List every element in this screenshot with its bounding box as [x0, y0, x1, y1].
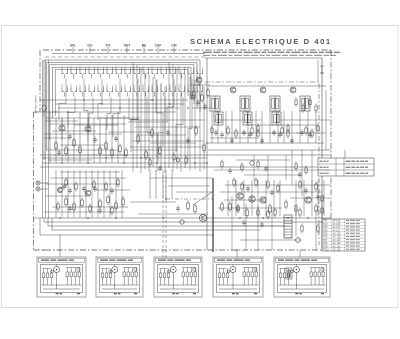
wire to box5 [299, 250, 301, 257]
tuner bus [42, 162, 207, 164]
junction dots 2 [212, 217, 214, 219]
inner dash-dot shield [205, 82, 319, 245]
chassis border left jog [34, 111, 41, 113]
inner dash-dot bottom [166, 198, 213, 200]
section separator vertical [206, 58, 208, 250]
transistor TR8 [85, 190, 91, 196]
small circle [180, 220, 184, 224]
transistor TR7 [58, 188, 63, 193]
IF transformer T1b [214, 112, 223, 125]
svg-text:GO: GO [87, 43, 93, 47]
accessory box 3 [154, 257, 202, 297]
chassis border left upper [39, 50, 41, 112]
transistor TR4 [230, 87, 236, 93]
IF bus1 [208, 142, 324, 144]
tuner capacitors [68, 135, 72, 137]
bus risers [40, 218, 52, 235]
output wires [227, 180, 229, 216]
AF parts left [65, 199, 68, 205]
tuner verticals [49, 112, 51, 163]
misc small parts [221, 162, 223, 167]
svg-text:SCHEMA ELECTRIQUE D 401: SCHEMA ELECTRIQUE D 401 [190, 37, 332, 46]
bus A [34, 217, 332, 219]
dial lamp [42, 105, 46, 111]
table wire [344, 150, 346, 158]
matrix lower horizontals [52, 99, 188, 101]
AGC circle [250, 161, 254, 165]
svg-text:AC 132: AC 132 [333, 249, 342, 252]
channel horizontals [130, 119, 205, 121]
chassis border left lower [33, 112, 35, 250]
transistor TR6 [290, 87, 296, 93]
svg-text:PO: PO [106, 43, 111, 47]
IF transformer T4 [300, 96, 310, 111]
parts list text line [203, 52, 212, 54]
IF bus2 [208, 149, 331, 151]
wire to box4 [236, 250, 238, 258]
transistor TR1 [59, 125, 65, 131]
switch contacts row 2 [62, 88, 68, 92]
output resistors [267, 212, 269, 217]
IF transformer T3 [270, 96, 280, 111]
bus B [44, 221, 331, 223]
transistor TR5 [260, 87, 266, 93]
AGC parts [295, 100, 297, 105]
bus C [48, 225, 290, 227]
oscillator cluster [193, 92, 196, 98]
band switch nested loops [44, 60, 200, 160]
chassis border bottom [34, 249, 332, 251]
svg-text:BE: BE [142, 43, 147, 47]
svg-text:ANT: ANT [124, 43, 131, 47]
antenna jack [36, 181, 40, 185]
svg-text:TR10: TR10 [323, 249, 330, 252]
chassis border right [330, 50, 332, 250]
IF transformer T3b [272, 112, 281, 125]
matrix drop wires [59, 79, 66, 120]
wire to box1 [59, 235, 61, 257]
svg-text:CAF: CAF [155, 43, 162, 47]
IF transformer T2b [243, 112, 252, 125]
general interconnect wires [42, 60, 44, 218]
output transistor TR13 [305, 197, 311, 203]
AF wires left [55, 170, 57, 218]
transistor TR2 [85, 126, 91, 132]
output transistor TR12 [260, 197, 266, 203]
driver parts [187, 203, 190, 209]
output small circle [296, 238, 301, 243]
heavy shield line [212, 178, 214, 252]
mid verticals [149, 170, 151, 199]
bus D [52, 229, 260, 231]
switch contacts row 1 [62, 70, 68, 74]
double boundary line [52, 53, 205, 55]
accessory box 4 [213, 257, 263, 297]
output transformer T5 [284, 215, 292, 238]
IF top wire [208, 85, 326, 87]
transistor table [322, 219, 365, 251]
channel verticals [132, 62, 134, 172]
AF extra parts [65, 180, 67, 185]
tuner resistors [55, 143, 58, 149]
IF resistors [227, 128, 229, 133]
drive diagonal [193, 192, 212, 205]
output transistor TR10 [237, 193, 243, 199]
dashed boundary line [45, 56, 205, 58]
junction dots [61, 162, 62, 163]
chassis border top [43, 49, 331, 51]
oscillator transistor TR3 [196, 77, 202, 83]
tuner bus3 [40, 166, 331, 168]
svg-text:M/L: M/L [70, 43, 76, 47]
channel parts [137, 136, 140, 142]
accessory box 1 [37, 257, 86, 297]
accessory box 5 antenne telescopique [274, 257, 330, 297]
bus E [40, 234, 213, 236]
driver transistor TR9 [199, 214, 206, 221]
svg-text:Lampe cadran: Lampe cadran [34, 95, 38, 113]
IF transformer T2 [240, 96, 250, 111]
voltage table [318, 158, 374, 176]
output transistor TR11 [249, 196, 255, 202]
tuner bus2 [42, 157, 207, 159]
detector diode [320, 66, 324, 73]
IF bus3 [40, 154, 331, 156]
tuner horizontals [46, 117, 130, 119]
accessory box 2 [96, 257, 143, 297]
svg-text:CM: CM [171, 43, 176, 47]
output stage parts [233, 180, 235, 185]
IF decoupling parts [214, 131, 218, 133]
inner shield box [205, 58, 322, 248]
dashed wire to box3 [162, 175, 164, 258]
IF verticals [211, 111, 213, 143]
IF transformer T1 [210, 96, 220, 111]
